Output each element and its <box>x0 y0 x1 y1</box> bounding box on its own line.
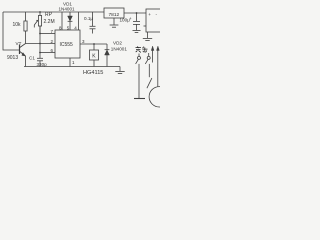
wire pin7 <box>40 33 55 35</box>
diode VD2 1N4001 <box>106 44 108 50</box>
regulator 7812 <box>104 8 124 18</box>
electrode bar <box>134 98 145 100</box>
wire pin6 <box>40 52 55 54</box>
node chain pins 7-2-6 <box>39 26 41 53</box>
mains line (live) <box>157 51 159 87</box>
svg-text:VT: VT <box>16 41 22 46</box>
svg-text:9013: 9013 <box>7 55 18 61</box>
svg-text:C1: C1 <box>29 56 35 61</box>
ground (bottom rail) <box>119 67 121 72</box>
pin 1 wire <box>69 58 71 67</box>
ground (rectifier) <box>147 32 149 38</box>
pin 8 wire <box>61 12 63 30</box>
wire collector to pin2 <box>26 43 56 45</box>
pin 3 wire <box>80 43 107 45</box>
svg-text:0.1μ: 0.1μ <box>84 16 93 21</box>
resistor 10k <box>25 12 27 21</box>
wire mains drop (live feed) <box>152 51 154 63</box>
svg-text:2.2M: 2.2M <box>44 19 55 25</box>
rectifier box <box>146 9 161 32</box>
capacitor C1 330p <box>39 53 41 58</box>
wire top rail left <box>3 11 104 13</box>
svg-text:VD2: VD2 <box>113 40 122 45</box>
svg-text:HG4115: HG4115 <box>83 70 103 76</box>
svg-text:RP: RP <box>45 12 53 18</box>
svg-text:7812: 7812 <box>109 12 120 18</box>
mains arrow 2 <box>157 46 160 51</box>
junction dots <box>39 11 41 13</box>
IC U1 555 timer <box>55 30 80 58</box>
potentiometer RP 2.2M <box>39 12 41 16</box>
ground (7812) <box>113 18 115 25</box>
wire bottom rail <box>24 66 120 68</box>
load motor circle <box>149 87 169 107</box>
svg-text:1N4001: 1N4001 <box>59 7 76 12</box>
capacitor 100u <box>136 13 138 21</box>
relay K <box>93 43 95 45</box>
contact K-2 <box>148 53 150 56</box>
mains arrow 1 <box>151 46 154 51</box>
pin 4 wire <box>78 12 80 30</box>
svg-text:+: + <box>148 12 151 17</box>
wire left drop to base <box>3 12 20 50</box>
wire top rail right (7812 output) <box>124 12 146 14</box>
label neutral (zero line) <box>136 47 148 53</box>
svg-text:VD1: VD1 <box>63 1 72 6</box>
capacitor 0.1u <box>92 12 94 26</box>
svg-text:100μ: 100μ <box>120 18 131 23</box>
svg-text:IC555: IC555 <box>60 42 74 48</box>
ground (100u) <box>133 30 141 32</box>
svg-text:1N4001: 1N4001 <box>111 47 128 52</box>
transistor VT 9013 <box>19 45 21 55</box>
diode VD1 1N4001 <box>69 12 71 30</box>
svg-text:10k: 10k <box>13 22 22 28</box>
contact K-1 (neutral) <box>138 54 140 57</box>
load switch blade <box>147 78 152 88</box>
